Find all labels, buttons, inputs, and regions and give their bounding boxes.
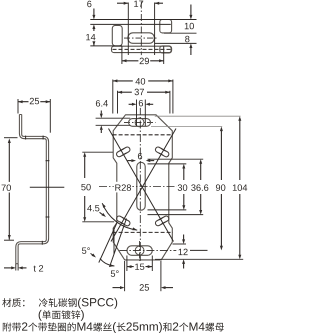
front view: 5-degree ray 1 xyxy=(99,223,117,263)
angled slot center hatch ticks xyxy=(120,149,125,152)
dim 36.6 extensions xyxy=(148,158,204,160)
front view: R28 adjustment arc xyxy=(102,203,137,230)
top view: flange slot 17x8 xyxy=(128,33,154,44)
bottom slot H centerline with dim 12 label gap xyxy=(119,249,176,251)
top view: flange right upper tab xyxy=(160,20,172,33)
label 5 deg left with leader xyxy=(82,247,86,253)
side view: center tick xyxy=(30,186,65,188)
dim 29 xyxy=(121,53,123,64)
top view: flange right lower tab xyxy=(160,46,172,53)
dim 6.4 xyxy=(96,117,131,119)
dim 6 central slot xyxy=(138,153,142,160)
top view: hidden bend line (dashed) xyxy=(113,48,171,50)
front view: bottom slot xyxy=(127,246,152,256)
label 5 deg xyxy=(111,270,115,276)
dim 14 xyxy=(86,34,90,40)
plate bottom extension line xyxy=(155,258,243,260)
front view: X line upper-left to lower-right xyxy=(109,129,174,242)
side view: lip tip cap xyxy=(19,114,21,116)
angled slot center hatch ticks xyxy=(159,153,164,156)
front view: 5-degree arc xyxy=(100,259,114,267)
dim 30 xyxy=(183,168,185,180)
dim 6 top slot xyxy=(136,100,138,127)
angled slot center hatch ticks xyxy=(159,218,164,221)
front view: bottom bend line (dashed) xyxy=(113,231,173,233)
note line 2: plating xyxy=(39,310,42,321)
bottom slot screw circle xyxy=(135,246,144,255)
top view: edge line A xyxy=(90,19,196,21)
top view: flange left tab xyxy=(112,25,122,46)
top view: slot horizontal centerline xyxy=(124,37,158,39)
side view: sheet profile outer face xyxy=(16,115,47,264)
side view: sheet profile inner face xyxy=(18,115,48,264)
dim 25 (front bottom) xyxy=(124,261,126,291)
dim 17 extension lines xyxy=(127,3,129,56)
side view: foot tip cap xyxy=(16,263,18,265)
dim 12 xyxy=(173,243,187,245)
top view: plate edge strip xyxy=(112,46,172,52)
dim 25 (side view top) xyxy=(17,99,19,114)
front view: angled slot lower-right xyxy=(155,215,170,227)
front view: X line lower-left to upper-right xyxy=(111,129,176,242)
dim 6 (top view) xyxy=(87,1,91,8)
note line 1: material xyxy=(2,298,11,307)
front view: vertical centerline xyxy=(139,107,141,268)
front view: plate outline xyxy=(113,115,172,260)
top slot screw circle xyxy=(135,118,144,127)
front view: angled slot upper-left xyxy=(116,146,131,158)
dim 50 xyxy=(82,151,113,153)
top view: edge line C xyxy=(90,45,122,47)
dim 37 xyxy=(117,91,119,114)
top view: foot tab edge left xyxy=(121,46,123,52)
bottom slot V centerline xyxy=(139,241,141,262)
side view: bend ticks on flange xyxy=(25,136,27,140)
dim 30 extensions xyxy=(148,163,187,165)
dim 104 xyxy=(239,121,241,181)
top view: edge line B xyxy=(90,23,171,25)
dim 15 xyxy=(126,256,128,272)
dim t2 xyxy=(15,264,17,271)
front view: angled slot upper-right xyxy=(155,146,170,158)
dim 70 xyxy=(4,137,18,139)
dim 40 xyxy=(112,80,114,114)
extension lines right (90 and 104 top) xyxy=(151,126,222,128)
top view: vertical centerline xyxy=(140,2,142,57)
side view: bend tick on bottom arm xyxy=(41,241,43,245)
dim 17 xyxy=(117,2,128,4)
dim 10 and 8 xyxy=(164,32,197,34)
top view: foot tab edge right xyxy=(163,46,165,52)
front view: 5-degree ray 2 xyxy=(110,219,127,268)
side view: bend ticks on plate xyxy=(46,160,50,162)
label 4.5 with leader xyxy=(87,205,92,211)
front view: angled slot lower-left xyxy=(116,215,131,227)
front view: vertical ref line at lower-left xyxy=(113,228,115,254)
angled slot center hatch ticks xyxy=(120,222,125,225)
note line 3: supplied screws xyxy=(3,322,12,331)
dim 36.6 xyxy=(200,164,202,181)
front view: horizontal centerline xyxy=(99,186,178,188)
front view: top bend line (dashed) xyxy=(113,134,173,136)
dim 90 xyxy=(220,131,222,180)
top slot horizontal centerline xyxy=(124,121,156,123)
front view: central slot xyxy=(137,162,145,210)
front view: top slot xyxy=(129,119,151,127)
